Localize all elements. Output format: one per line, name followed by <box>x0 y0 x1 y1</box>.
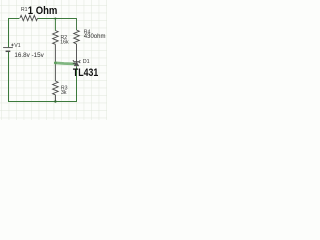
triangle anode <box>74 62 79 66</box>
wire: top net from R1 left to V1 <box>9 18 20 20</box>
wire: D1 anode down to bottom rail <box>76 66 78 102</box>
wire: R2 bottom to R3 top <box>54 44 56 81</box>
wire: R4 bottom to D1 cathode <box>76 44 78 62</box>
svg-text:430ohm: 430ohm <box>84 34 106 40</box>
ref pin stub <box>73 62 76 64</box>
wire: R2 branch from top net <box>54 18 56 31</box>
svg-text:3k: 3k <box>61 90 67 96</box>
wire: corner down to R4 <box>76 18 78 30</box>
cathode bar with wings <box>73 60 80 63</box>
node junction at ref net <box>54 62 57 65</box>
node junction at R2 branch <box>54 17 56 19</box>
svg-text:V1: V1 <box>14 43 20 49</box>
wire: top net R1 right to corner above R4 <box>38 18 77 20</box>
wire: bottom rail <box>9 101 78 103</box>
shunt regulator D1 TL431 <box>73 60 81 66</box>
svg-text:1 Ohm: 1 Ohm <box>28 5 58 17</box>
resistor R2 <box>53 31 59 45</box>
svg-text:D1: D1 <box>83 59 90 65</box>
svg-text:TL431: TL431 <box>73 67 98 79</box>
svg-text:R1: R1 <box>21 7 28 13</box>
svg-text:16k: 16k <box>60 40 69 46</box>
svg-text:16.8v -15v: 16.8v -15v <box>14 52 44 59</box>
plus sign <box>11 44 14 47</box>
canvas background <box>0 0 107 120</box>
node junction at bottom rail <box>54 100 56 102</box>
resistor R4 <box>74 30 80 44</box>
wire: V1 bottom to bottom rail <box>8 52 10 102</box>
battery V1 <box>3 48 13 52</box>
wire: R3 bottom lead <box>54 95 56 102</box>
resistor R3 <box>53 81 59 95</box>
resistor R1 <box>20 15 38 20</box>
wire: highlighted net R2/R3 node to D1 ref pin <box>55 63 74 64</box>
wire: V1 top lead <box>8 18 10 47</box>
